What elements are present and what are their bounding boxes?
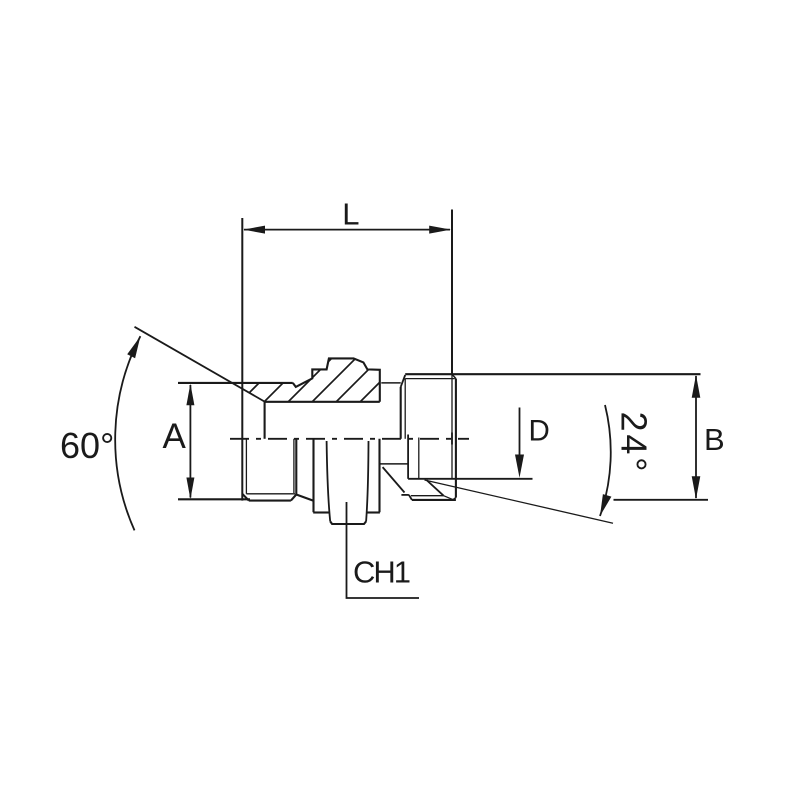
dimension L extension line right: [451, 210, 453, 375]
lower left thread: crest bottom line: [249, 500, 291, 502]
dimension L extension line left / left end face: [241, 218, 243, 501]
60 degree arc arrowhead: [127, 336, 140, 358]
60 degree arc: [115, 336, 140, 530]
neck top line: [381, 382, 400, 384]
dimension D reference line: [408, 478, 532, 480]
right block top-right chamfer: [452, 374, 456, 378]
dimension L line with arrows: [244, 229, 450, 231]
right block top-left chamfer: [401, 375, 406, 387]
centerline: [230, 438, 469, 440]
right block bottom-right tiny chamfer: [453, 498, 456, 500]
right block right edge inner: [451, 374, 453, 478]
right block bottom chamfer from neck: [383, 467, 405, 492]
bore start vertical: [264, 402, 266, 439]
dimension A top extension + thread top line: [178, 382, 293, 384]
right block chamfer line below top: [405, 378, 455, 380]
dimension A bottom extension line: [178, 498, 250, 500]
lower left thread: right chamfer diagonal: [291, 495, 296, 501]
dimension B line with arrows: [695, 376, 697, 498]
hex lower view: right corner curve: [366, 441, 368, 521]
hex lower view: left outer vertical: [312, 439, 314, 513]
lower left thread: left chamfer diagonal: [242, 494, 249, 501]
dimension A line with arrows: [189, 385, 191, 498]
CH1 leader line: [347, 502, 420, 598]
right block top edge + B top extension: [405, 373, 700, 375]
lower left thread: inner chamfer line: [245, 439, 247, 494]
lower left thread: right end verticals: [293, 439, 295, 493]
dimension B bottom extension line: [614, 499, 709, 501]
hex lower view: right outer vertical: [378, 439, 380, 513]
24 degree arc arrowhead: [600, 494, 611, 516]
right block bottom edge: [412, 499, 456, 501]
24 degree arc: [600, 405, 611, 516]
svg-text:CH1: CH1: [353, 555, 410, 590]
hex lower view: bottom profile right face: [367, 511, 380, 513]
right block cone chamfer diagonal: [427, 480, 444, 496]
hex lower view: front face bottom: [330, 521, 366, 524]
neck bottom line: [380, 463, 409, 465]
hex lower view: left corner curve: [327, 441, 331, 521]
bore line: [265, 401, 380, 403]
dimension D line with arrow: [519, 408, 521, 456]
right block right edge outer: [455, 379, 457, 498]
right block root line: [411, 495, 444, 497]
right block bottom ledge: [401, 494, 409, 496]
svg-text:60°: 60°: [60, 425, 114, 466]
hex lower view: bottom profile left face: [313, 511, 329, 513]
right block left edge inner: [404, 379, 406, 439]
centerline end tick: [451, 433, 453, 445]
24 degree cone line: [425, 480, 614, 523]
lower left thread: root line: [246, 493, 295, 495]
svg-text:24°: 24°: [614, 412, 655, 475]
right block ledge chamfer: [409, 495, 412, 500]
hatch section lines: [240, 358, 423, 402]
svg-text:A: A: [163, 417, 187, 456]
section outline: thread V and hex steps: [293, 358, 380, 401]
right block runout diagonal: [444, 496, 454, 500]
svg-text:D: D: [529, 415, 550, 448]
right block left edge outer: [400, 387, 402, 439]
svg-text:B: B: [704, 422, 725, 457]
cone transition thread to hex: [296, 495, 313, 501]
60 degree cone line: [135, 327, 265, 402]
right block lower-left verticals: [407, 435, 409, 479]
svg-text:L: L: [342, 196, 359, 231]
